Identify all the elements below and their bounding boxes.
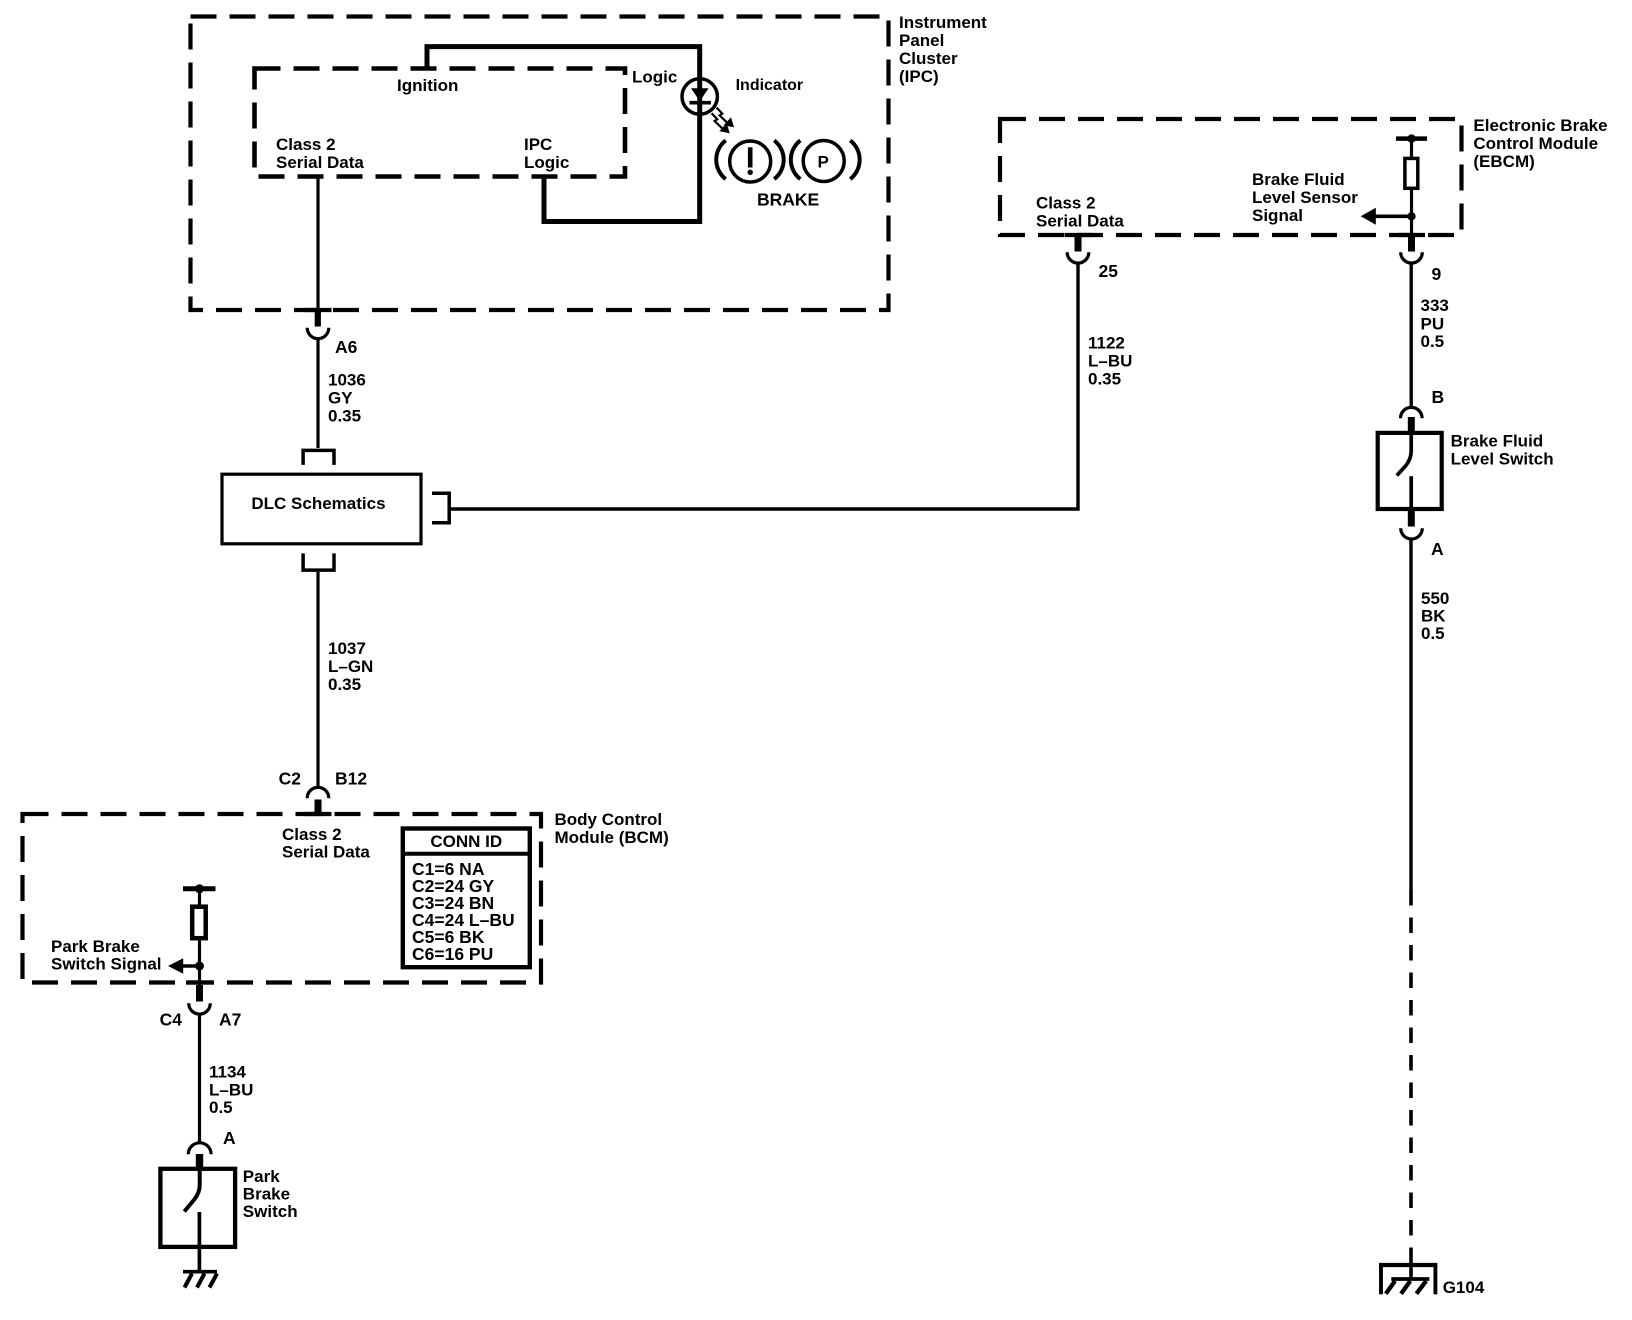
svg-text:Level Switch: Level Switch [1451, 450, 1554, 469]
LED indicator [682, 79, 717, 114]
DLC Schematics box [222, 474, 421, 544]
svg-text:Cluster: Cluster [899, 49, 958, 68]
park brake switch box [160, 1169, 235, 1247]
svg-text:Module (BCM): Module (BCM) [555, 828, 669, 847]
CONN ID table [402, 829, 532, 968]
svg-text:1037: 1037 [328, 639, 366, 658]
connector 25 [1067, 235, 1089, 263]
label Class 2 Serial Data (EBCM) [1036, 194, 1124, 231]
svg-text:G104: G104 [1443, 1278, 1485, 1297]
svg-text:A6: A6 [335, 337, 358, 357]
brake fluid level switch blade [1397, 431, 1411, 476]
label Park Brake Switch Signal [51, 937, 162, 974]
svg-text:Serial Data: Serial Data [1036, 212, 1124, 231]
svg-text:(IPC): (IPC) [899, 67, 939, 86]
svg-text:C2: C2 [279, 769, 302, 789]
connector A6 [307, 310, 329, 339]
park brake symbol ((P)) [791, 140, 860, 181]
wire 1134 [198, 1015, 201, 1143]
svg-text:BRAKE: BRAKE [757, 190, 819, 210]
svg-text:A7: A7 [219, 1010, 241, 1030]
svg-text:CONN ID: CONN ID [430, 832, 502, 851]
label Class 2 Serial Data (BCM) [282, 825, 370, 862]
connector 9 [1401, 235, 1423, 263]
svg-text:1036: 1036 [328, 371, 366, 390]
wire 333 [1409, 263, 1412, 406]
svg-text:DLC Schematics: DLC Schematics [251, 494, 385, 513]
svg-text:(EBCM): (EBCM) [1473, 152, 1534, 171]
wire resistor to BCM edge [198, 941, 201, 986]
svg-text:25: 25 [1099, 261, 1119, 281]
svg-text:Brake: Brake [243, 1185, 290, 1204]
wire 1037 DLC to BCM [316, 572, 319, 786]
svg-text:A: A [223, 1128, 236, 1148]
label 1134 L-BU 0.5 [209, 1063, 253, 1118]
svg-text:Logic: Logic [524, 153, 569, 172]
EBCM dashed box [1000, 119, 1462, 235]
svg-text:L–BU: L–BU [209, 1081, 253, 1100]
svg-text:Park: Park [243, 1167, 280, 1186]
svg-text:0.35: 0.35 [328, 407, 361, 426]
label Brake Fluid Level Sensor Signal [1252, 170, 1358, 225]
BCM module label [555, 810, 669, 847]
svg-text:GY: GY [328, 389, 353, 408]
LED light ray arrows [712, 108, 734, 134]
IPC module dashed box [191, 17, 889, 311]
svg-text:Body Control: Body Control [555, 810, 663, 829]
DLC bottom connector bracket [303, 553, 334, 570]
svg-text:550: 550 [1421, 589, 1449, 608]
connector C2/B12 [307, 787, 329, 814]
label 1122 L-BU 0.35 [1088, 334, 1132, 389]
brake warning symbol ((!)) [716, 140, 783, 182]
wire 1036 [316, 339, 319, 448]
BCM park brake pull-up resistor [183, 884, 216, 938]
svg-text:Panel: Panel [899, 31, 944, 50]
park brake switch signal arrow [168, 958, 200, 974]
svg-text:Class 2: Class 2 [276, 135, 336, 154]
svg-text:PU: PU [1421, 314, 1445, 333]
label 550 BK 0.5 [1421, 589, 1449, 643]
svg-text:P: P [818, 152, 829, 171]
svg-text:L–GN: L–GN [328, 657, 373, 676]
svg-text:0.5: 0.5 [1421, 332, 1445, 351]
junction dot (EBCM) [1407, 212, 1415, 220]
connector A park brake switch [188, 1143, 211, 1169]
svg-text:0.5: 0.5 [1421, 624, 1445, 643]
label 1037 L-GN 0.35 [328, 639, 373, 694]
label 1036 GY 0.35 [328, 371, 366, 426]
brake fluid level switch box [1378, 433, 1442, 509]
svg-text:BK: BK [1421, 607, 1446, 626]
svg-text:Indicator: Indicator [736, 77, 804, 94]
ground G104 [1379, 1263, 1437, 1294]
park brake switch blade [184, 1168, 199, 1212]
svg-text:Serial Data: Serial Data [276, 153, 364, 172]
BCM dashed box [23, 814, 542, 983]
svg-text:Brake Fluid: Brake Fluid [1451, 432, 1544, 451]
svg-text:Switch: Switch [243, 1202, 298, 1221]
wire DLC to EBCM (horizontal + vertical riser) [450, 263, 1078, 509]
svg-text:Level Sensor: Level Sensor [1252, 188, 1358, 207]
junction dot [195, 962, 204, 971]
svg-text:0.35: 0.35 [1088, 370, 1121, 389]
svg-text:9: 9 [1432, 264, 1442, 284]
wire 550 dashed section [1409, 890, 1413, 1250]
svg-text:Park Brake: Park Brake [51, 937, 140, 956]
wire 550 solid section [1409, 539, 1412, 890]
svg-text:Control Module: Control Module [1473, 134, 1598, 153]
svg-text:0.35: 0.35 [328, 675, 361, 694]
IPC internal logic dashed box [255, 69, 626, 177]
svg-text:Class 2: Class 2 [1036, 194, 1096, 213]
svg-text:Signal: Signal [1252, 206, 1303, 225]
connector B [1401, 407, 1423, 432]
wire ignition to indicator loop [427, 47, 700, 222]
connector A (brake fluid level switch) [1401, 511, 1423, 539]
svg-text:1134: 1134 [209, 1063, 246, 1082]
wire class 2 serial data from IPC [316, 177, 319, 311]
EBCM brake fluid sensor resistor [1396, 134, 1427, 188]
park brake switch lower contact [198, 1212, 202, 1270]
brake fluid level sensor signal arrow [1361, 208, 1412, 225]
svg-text:B12: B12 [335, 769, 367, 789]
brake fluid level switch lower contact [1409, 476, 1413, 511]
svg-text:Class 2: Class 2 [282, 825, 342, 844]
connector C4/A7 [189, 985, 211, 1014]
DLC right connector bracket [432, 493, 449, 523]
svg-text:IPC: IPC [524, 135, 552, 154]
EBCM module label [1473, 116, 1607, 171]
svg-text:333: 333 [1421, 296, 1449, 315]
svg-text:C4: C4 [160, 1010, 183, 1030]
IPC module label [899, 13, 987, 86]
svg-text:Logic: Logic [632, 68, 677, 87]
svg-text:B: B [1432, 387, 1445, 407]
ground (park brake switch) [183, 1272, 217, 1288]
svg-text:0.5: 0.5 [209, 1098, 233, 1117]
svg-text:Switch Signal: Switch Signal [51, 955, 162, 974]
wire stub into ground [1409, 1250, 1413, 1279]
svg-text:A: A [1431, 539, 1444, 559]
label Park Brake Switch [243, 1167, 298, 1221]
svg-text:Instrument: Instrument [899, 13, 987, 32]
DLC top connector bracket [303, 450, 334, 465]
svg-text:C6=16 PU: C6=16 PU [412, 944, 493, 964]
label Brake Fluid Level Switch [1451, 432, 1554, 469]
svg-text:Electronic Brake: Electronic Brake [1473, 116, 1607, 135]
svg-text:L–BU: L–BU [1088, 352, 1132, 371]
svg-text:Ignition: Ignition [397, 76, 458, 95]
svg-text:Serial Data: Serial Data [282, 843, 370, 862]
wire resistor to EBCM edge [1410, 190, 1413, 236]
svg-text:1122: 1122 [1088, 334, 1125, 353]
svg-text:Brake Fluid: Brake Fluid [1252, 170, 1345, 189]
label 333 PU 0.5 [1421, 296, 1449, 351]
